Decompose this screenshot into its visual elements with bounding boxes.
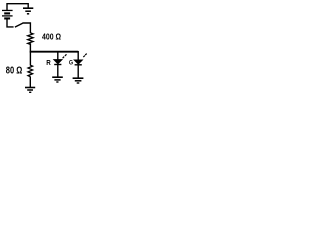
- wire resistor to bus and down: [29, 43, 31, 65]
- wire battery to switch: [7, 19, 14, 27]
- ground LED G: [73, 78, 84, 83]
- LED G (green): [74, 60, 82, 65]
- wire bus to LED R: [57, 52, 59, 60]
- LED R (red): [54, 60, 62, 65]
- svg-text:400 Ω: 400 Ω: [42, 31, 61, 41]
- wire 80Ω to ground: [29, 77, 31, 88]
- ground bottom-left: [25, 88, 35, 93]
- ground LED R: [52, 77, 63, 82]
- LED R arrows: [63, 54, 67, 58]
- wire bus corner to LED G: [77, 51, 79, 60]
- wire LED G to ground: [77, 65, 79, 78]
- battery B1: [2, 10, 13, 18]
- switch S1 blade: [15, 23, 23, 27]
- ground top-right: [23, 8, 33, 14]
- svg-text:R: R: [46, 58, 51, 67]
- resistor R1 400Ω: [28, 33, 33, 45]
- wire switch to resistor: [22, 23, 30, 33]
- wire top from battery to ground: [7, 4, 28, 10]
- LED G arrows: [83, 54, 86, 58]
- resistor R2 80Ω: [28, 65, 33, 76]
- svg-text:G: G: [69, 60, 73, 67]
- wire LED R to ground: [57, 65, 59, 77]
- wire bus: [30, 51, 78, 53]
- svg-text:80 Ω: 80 Ω: [6, 65, 23, 76]
